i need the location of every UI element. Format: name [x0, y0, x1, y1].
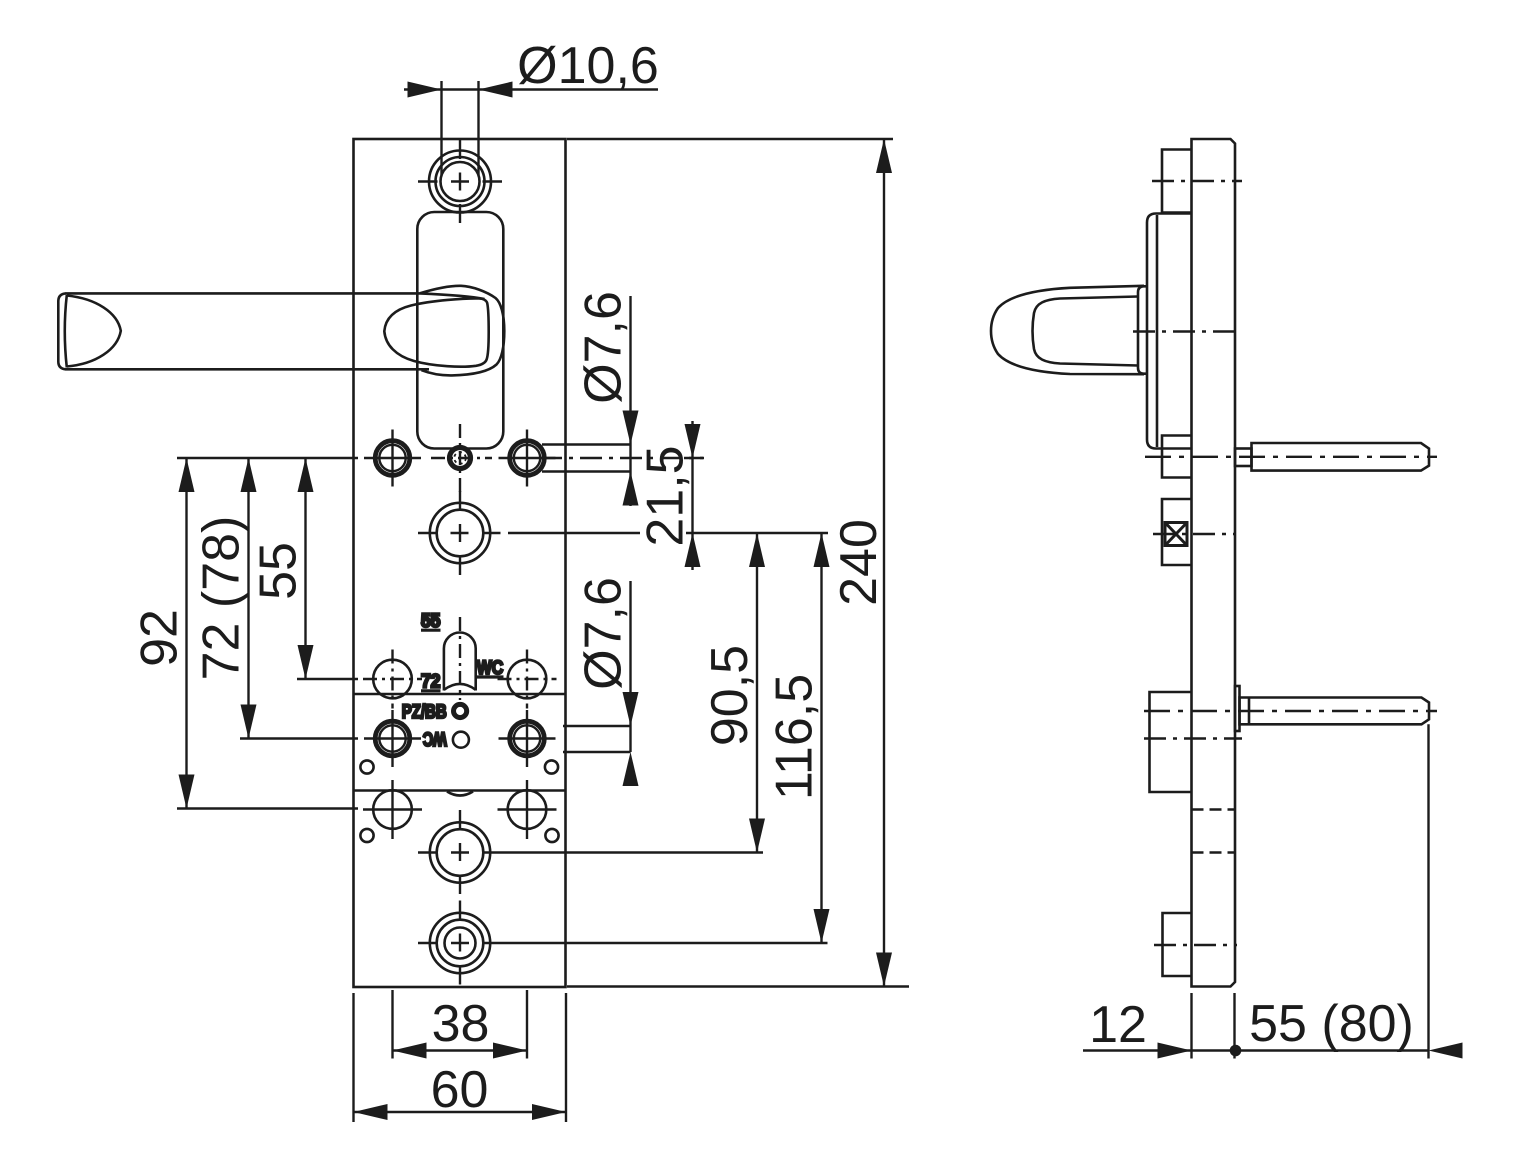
side view handle collar [1138, 286, 1148, 373]
phantom hole right (72 position) [508, 660, 547, 699]
lower spindle centerline [1144, 710, 1437, 712]
dimension D7.6 upper line and arrows [623, 296, 639, 506]
handle neck collar (front) [420, 286, 504, 376]
lower row hole left crosshair [363, 780, 422, 839]
left extension line y739 [240, 737, 358, 739]
label WC rotated [423, 728, 447, 749]
label 72 [421, 672, 441, 693]
dimension 12 [1083, 996, 1235, 1059]
side view lower boss [1163, 913, 1192, 976]
upper spindle centerline [1145, 456, 1437, 458]
centerline row 458 extension [540, 457, 703, 459]
dimension 38 extension lines [393, 990, 528, 1059]
extension line y533 [508, 532, 828, 534]
PZ row centerline [1144, 737, 1242, 739]
upper screw hole right (bold) [510, 441, 545, 476]
left extension line y808 [177, 807, 358, 809]
side view plate [1192, 139, 1236, 987]
X section square [1165, 523, 1187, 546]
dimension 38 [393, 995, 528, 1059]
dimension D7.6 upper ticks [542, 445, 631, 472]
small pin hole lower-left [360, 829, 373, 842]
svg-text:90,5: 90,5 [701, 645, 759, 746]
svg-text:21,5: 21,5 [637, 445, 695, 546]
svg-text:55: 55 [250, 542, 308, 600]
top hole crosshair [418, 140, 502, 223]
upper screw hole left crosshair [364, 430, 421, 487]
dimension D7.6 upper text [575, 291, 633, 404]
hidden line row 809 [1192, 808, 1236, 810]
svg-text:Ø7,6: Ø7,6 [575, 291, 633, 404]
side bottom extension lines [1192, 724, 1429, 1058]
upper spindle pin [1252, 443, 1430, 471]
svg-text:12: 12 [1089, 996, 1147, 1054]
svg-text:72 (78): 72 (78) [193, 516, 251, 681]
handle bar bottom edge [66, 368, 430, 371]
plate section line lower [354, 789, 566, 792]
handle neck grip base (front, egg shape) [384, 298, 488, 366]
phantom hole left crosshair [363, 650, 422, 709]
svg-text:Ø7,6: Ø7,6 [575, 577, 633, 690]
middle screw hole right (bold) [510, 721, 545, 756]
phantom hole right crosshair [498, 650, 557, 709]
extension line y852 [502, 851, 763, 853]
dimension 72 (78) [193, 458, 257, 739]
side view top boss centerline [1152, 180, 1242, 182]
lower spindle flange [1235, 686, 1240, 731]
svg-text:PZ/BB: PZ/BB [402, 702, 447, 723]
cylinder arc below section line [447, 792, 473, 796]
lower row hole right [508, 790, 547, 829]
extension line y943 [502, 942, 828, 944]
WC indicator circle [453, 732, 469, 748]
side view X boss [1162, 499, 1192, 565]
extension line bottom y986 [567, 985, 909, 987]
lower follower hole [430, 822, 490, 882]
svg-text:Ø10,6: Ø10,6 [517, 37, 659, 95]
handle bar top edge [66, 293, 485, 299]
dimension 92 [131, 458, 195, 809]
left extension line y458 [177, 457, 358, 459]
left extension line y679 [297, 678, 358, 680]
dimension 240 [830, 139, 892, 987]
dimension 60 extension lines [354, 993, 567, 1122]
svg-text:60: 60 [431, 1061, 489, 1119]
lower row hole left [373, 790, 412, 829]
side view handle grip outer [991, 286, 1144, 374]
label 55 [421, 611, 441, 632]
lower follower hole crosshair [418, 810, 502, 895]
side view handle centerline [1133, 330, 1241, 332]
svg-text:116,5: 116,5 [766, 674, 824, 800]
dimension 60 [354, 1061, 567, 1120]
hidden line row 852 [1192, 851, 1236, 853]
dimension D10.6 text [517, 37, 659, 95]
bottom hole (three rings) [430, 913, 490, 973]
upper spindle collar [1235, 449, 1252, 467]
dimension 55 (80) [1230, 995, 1463, 1059]
side view top boss [1162, 150, 1192, 213]
svg-text:92: 92 [131, 609, 189, 667]
upper screw hole left (bold) [375, 441, 410, 476]
phantom hole left (72 position) [373, 660, 412, 699]
small center hole crosshair [431, 424, 492, 492]
lower row hole right crosshair [498, 780, 557, 839]
dimension 21.5 [637, 421, 705, 570]
lower boss centerline [1154, 944, 1237, 946]
extension line top y139 [567, 138, 893, 140]
svg-text:WC: WC [423, 728, 447, 749]
label WC [477, 658, 504, 679]
dimension D7.6 lower line and arrows [623, 581, 639, 786]
center follower hole crosshair [418, 491, 501, 575]
side view upper pin boss [1162, 436, 1192, 478]
dimension 55 [250, 458, 314, 679]
small pin hole upper-right [545, 760, 558, 773]
svg-text:55 (80): 55 (80) [1249, 995, 1414, 1053]
middle screw hole right crosshair [499, 710, 556, 767]
label PZ/BB [402, 702, 447, 723]
front plate outline [354, 139, 566, 987]
svg-text:38: 38 [432, 995, 490, 1053]
svg-text:240: 240 [830, 519, 888, 606]
middle screw hole left (bold) [375, 721, 410, 756]
plate section line upper [354, 693, 566, 696]
handle escutcheon rounded rectangle [417, 212, 503, 449]
center follower hole [430, 503, 490, 563]
dimension D10.6 line and arrows [404, 82, 658, 98]
keyhole centerline [459, 617, 461, 700]
small pin hole upper-left [360, 760, 373, 773]
dimension D7.6 lower text [575, 577, 633, 690]
side view middle boss [1150, 692, 1192, 792]
dimension D7.6 lower ticks [563, 726, 631, 752]
small center hole (bold) [450, 448, 471, 469]
lower spindle pin [1240, 698, 1430, 725]
dimension D10.6 extension lines [442, 81, 479, 175]
dimension 116.5 [766, 533, 830, 943]
side view escutcheon profile [1147, 214, 1192, 449]
PZ keyhole slot [444, 633, 476, 691]
top hole counterbore [429, 151, 491, 213]
dimension 90.5 [701, 533, 765, 853]
side view handle grip inner face [1033, 297, 1139, 366]
middle screw hole left crosshair [364, 710, 421, 767]
PZ/BB indicator circle (bold) [454, 704, 467, 717]
X boss centerline [1153, 533, 1236, 535]
upper screw hole right crosshair [499, 430, 556, 487]
bottom hole crosshair [418, 901, 502, 986]
handle left end cap [58, 293, 121, 369]
small pin hole lower-right [545, 829, 558, 842]
